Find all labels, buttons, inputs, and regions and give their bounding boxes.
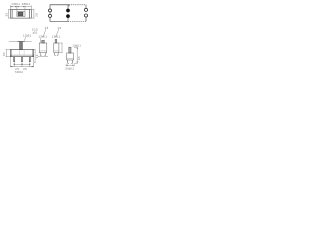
side view 3: foot left [68,60,69,63]
front view: pitch dim line [10,57,33,67]
terminal 4 (open circle right bottom) [84,14,87,17]
front view: right height dim [34,50,36,63]
contact A (filled circle top) [66,9,70,13]
terminal 1 (open circle left top) [49,9,52,12]
side view 1: foot right [44,53,45,56]
dimension: top width line [10,5,31,11]
side view 2: stem [55,39,57,43]
side view 2: foot left [55,53,56,56]
leader 2 [56,29,59,37]
front view: pin 3 [29,57,30,62]
svg-text:1.5: 1.5 [58,27,62,30]
front view: pin 2 [21,57,22,62]
svg-text:4.5: 4.5 [78,56,81,60]
svg-text:1.5: 1.5 [45,27,49,30]
side view 3: bottom dim arrowheads [66,65,74,66]
front view: body [10,50,33,57]
terminal 2 (open circle left bottom) [49,14,52,17]
svg-text:1.5±0.1: 1.5±0.1 [23,34,32,37]
top view: body outline [10,10,31,19]
side view 1: base line [39,50,47,52]
svg-text:3.8±0.1: 3.8±0.1 [22,3,31,6]
side view 3: right dim arrowheads [77,47,78,63]
side view 1: bottom dim [38,56,48,58]
side view 3: stem [69,47,71,53]
wire between left terminals [49,12,51,15]
front view: left height dim [6,50,10,57]
side view 1: knob height leader [40,38,42,42]
side view 2: foot right [57,53,58,56]
dimension: right height of top view [32,10,35,19]
svg-text:7.0±0.2: 7.0±0.2 [15,71,24,74]
dimension: left height of top view [8,10,10,19]
top view: actuator knob (gray) [18,12,23,16]
svg-text:5.0: 5.0 [36,54,39,58]
front view: travel dim arrowheads [18,41,25,42]
svg-text:1.5±0.1: 1.5±0.1 [38,35,47,38]
side view 3: bottom dim [66,64,74,67]
top view: actuator slot [17,12,25,17]
svg-text:2.5: 2.5 [23,68,27,71]
wire tick to contact A [67,5,69,9]
svg-text:1.5±0.1: 1.5±0.1 [11,3,20,6]
side view 3: body [67,53,74,60]
front view: dim arrowheads [10,63,33,67]
wire tick below contact B [67,18,69,22]
side view 2: base line [54,50,59,52]
leader 1 [43,29,46,37]
schematic: top rail wire [50,5,86,10]
svg-text:3.0±0.1: 3.0±0.1 [65,67,74,70]
side view 3: foot right [71,60,72,63]
front view: knob leader line [24,37,26,41]
schematic: bottom rail wire [50,17,86,22]
svg-text:3.5: 3.5 [6,12,9,16]
svg-text:±0.1: ±0.1 [33,31,38,34]
front view: actuator knob [20,41,23,49]
side view 2: right dim [59,43,62,53]
side view 1: knob [42,40,45,43]
svg-text:2.6: 2.6 [35,13,38,17]
side view 1: foot left [40,53,41,56]
front view: travel dimension line [9,41,32,43]
contact B (filled circle bottom) [66,14,70,18]
svg-text:3.5: 3.5 [3,52,6,56]
terminal 3 (open circle right top) [84,8,87,11]
svg-text:1.5±0.1: 1.5±0.1 [52,35,61,38]
side view 1: body [39,43,47,53]
dimension arrowheads top width [10,6,25,7]
front view: pin 1 [14,57,15,62]
side view 3: base line [67,58,74,60]
side view 3: right height dim [74,47,78,63]
side view 2: body [54,43,59,53]
